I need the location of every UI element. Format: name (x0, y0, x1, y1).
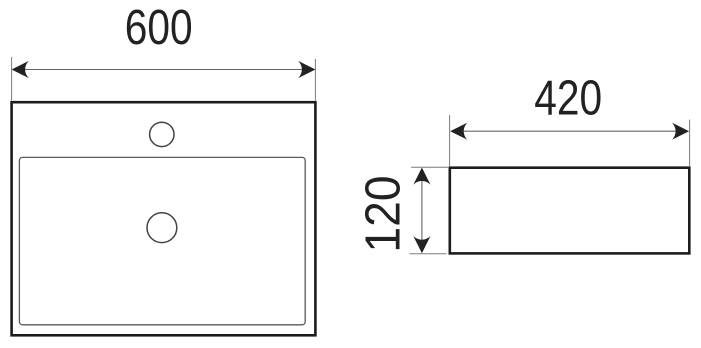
svg-text:600: 600 (125, 0, 193, 55)
svg-text:120: 120 (357, 175, 412, 252)
svg-text:420: 420 (534, 70, 602, 125)
